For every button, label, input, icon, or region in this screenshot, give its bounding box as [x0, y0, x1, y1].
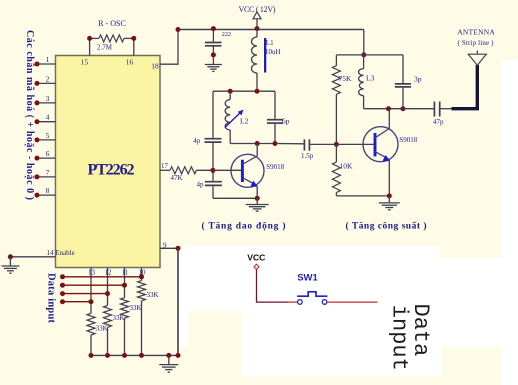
ground G2 (222 cap) — [205, 64, 222, 72]
wire: VCC to switch (dark red) — [257, 270, 289, 303]
label: Data input (big, rotated) — [387, 304, 434, 371]
wire: tank top — [213, 89, 275, 94]
svg-text:L3: L3 — [366, 74, 375, 83]
svg-text:7: 7 — [46, 168, 50, 177]
resistor R-OSC 2.7M — [90, 19, 134, 52]
capacitor 3p — [395, 55, 422, 109]
switch SW1 — [297, 273, 327, 305]
VCC pin marker — [254, 264, 259, 269]
svg-text:PT2262: PT2262 — [88, 162, 135, 179]
svg-text:L1: L1 — [266, 39, 274, 47]
pin 8 wire — [35, 186, 56, 198]
svg-text:17: 17 — [161, 162, 169, 170]
svg-text:( Tăng dao động ): ( Tăng dao động ) — [202, 220, 286, 231]
label: Tang cong suat — [346, 221, 427, 232]
svg-text:4p: 4p — [197, 181, 205, 189]
antenna symbol — [457, 28, 495, 66]
ground G4 (Q2 emitter) — [379, 196, 400, 210]
label: encode pins vertical text — [24, 30, 35, 200]
capacitor C 4p (lower) — [197, 181, 222, 199]
svg-text:33K: 33K — [147, 291, 159, 299]
svg-text:6: 6 — [46, 149, 50, 158]
label: Data input (small) — [46, 273, 57, 324]
ground G1 (enable) — [1, 257, 19, 273]
svg-text:R - OSC: R - OSC — [98, 19, 126, 28]
wire: stage2 tank bottom — [364, 106, 406, 111]
svg-text:18: 18 — [151, 62, 159, 71]
wire: Q2 collector — [388, 109, 390, 129]
resistor 33K (pin 11) — [121, 268, 142, 356]
wire: data line 1 — [60, 274, 142, 279]
pin 6 wire — [35, 149, 56, 161]
strip line (thick) — [452, 65, 478, 109]
pin 5 wire — [35, 131, 56, 143]
svg-text:1: 1 — [46, 55, 50, 64]
svg-text:15: 15 — [81, 58, 89, 67]
transistor Q2 S9018 (power) — [336, 127, 417, 162]
wire: tank bottom — [230, 141, 277, 146]
capacitor 1.5p coupling — [275, 139, 336, 160]
svg-text:ANTENNA: ANTENNA — [457, 28, 495, 37]
label: Tang dao dong — [202, 220, 286, 231]
svg-text:S9018: S9018 — [399, 136, 417, 144]
resistor 33K (pin 13) — [87, 268, 108, 356]
wire: data line 4 — [60, 299, 91, 304]
svg-text:5: 5 — [46, 131, 50, 140]
svg-text:3p: 3p — [414, 75, 422, 84]
svg-text:( Strip line ): ( Strip line ) — [458, 39, 495, 47]
inductor L2 (variable) — [225, 91, 249, 143]
svg-text:( Tăng công suất ): ( Tăng công suất ) — [346, 221, 427, 232]
wire: bottom rail — [89, 353, 181, 358]
resistor 33K (pin 10) — [138, 268, 159, 356]
svg-text:4: 4 — [46, 113, 50, 122]
wire: stub to switch contact (red) — [288, 301, 297, 303]
pin 18 wire — [151, 27, 180, 71]
inductor L1 10uH — [252, 29, 281, 92]
wire: switch output (red) — [327, 301, 378, 303]
pin 1 wire — [35, 55, 56, 67]
svg-text:6p: 6p — [282, 117, 290, 126]
capacitor 47p — [403, 102, 452, 127]
svg-text:1.5p: 1.5p — [301, 152, 314, 160]
VCC (12V) supply symbol — [239, 5, 276, 31]
svg-text:13: 13 — [88, 269, 96, 277]
VCC label (switch) — [247, 252, 265, 262]
wire: data line 3 — [60, 291, 108, 296]
wire: data line 2 — [60, 283, 125, 288]
svg-text:222: 222 — [222, 31, 231, 38]
capacitor C 4p (upper) — [193, 91, 221, 181]
wire: Q1 emitter to ground — [213, 187, 260, 201]
white overlay box — [180, 60, 518, 385]
wire: VCC rail — [178, 29, 364, 31]
svg-text:75K: 75K — [339, 74, 353, 83]
svg-text:10uH: 10uH — [265, 48, 281, 56]
pin 9 wire — [160, 242, 181, 251]
svg-text:47K: 47K — [171, 174, 183, 182]
svg-text:Các chân mã hoá ( + hoặc - ho: Các chân mã hoá ( + hoặc - hoặc 0 ) — [24, 30, 35, 200]
svg-text:47p: 47p — [433, 118, 444, 126]
wire: Q1 collector stub — [256, 144, 258, 157]
IC U1 PT2262 — [56, 56, 161, 268]
svg-text:SW1: SW1 — [297, 273, 318, 284]
ground G3 (Q1 emitter) — [246, 198, 269, 211]
svg-text:8: 8 — [46, 186, 50, 195]
svg-text:L2: L2 — [240, 117, 249, 126]
pin 4 wire — [35, 113, 56, 125]
resistor 33K (pin 12) — [104, 268, 125, 356]
wire: pin9 column down — [177, 248, 179, 355]
node pin15 — [81, 36, 92, 67]
resistor 47K (pin 17) — [160, 162, 216, 182]
svg-text:10K: 10K — [340, 162, 354, 171]
pin 3 wire — [35, 94, 56, 106]
svg-text:11: 11 — [122, 269, 129, 277]
pin 2 wire — [35, 74, 56, 86]
svg-text:12: 12 — [105, 269, 113, 277]
node pin16 — [126, 36, 137, 67]
svg-text:33K: 33K — [130, 304, 142, 312]
ground G5 (bottom rail) — [159, 355, 178, 372]
transistor Q1 S9018 (oscillator) — [213, 154, 285, 187]
pin 7 wire — [35, 168, 56, 180]
svg-text:33K: 33K — [96, 325, 108, 333]
svg-text:Data input: Data input — [46, 273, 57, 324]
capacitor 222 — [205, 26, 231, 63]
wire: rail drop to stage 2 — [361, 30, 366, 58]
svg-text:VCC: VCC — [247, 252, 265, 262]
svg-text:16: 16 — [126, 58, 134, 67]
svg-text:4p: 4p — [193, 137, 201, 145]
capacitor C 6p — [267, 91, 290, 143]
svg-text:3: 3 — [46, 94, 50, 103]
svg-text:14 Enable: 14 Enable — [47, 249, 75, 257]
pin 14 Enable wire — [8, 249, 75, 259]
wire: stage2 top — [336, 54, 403, 56]
svg-text:2.7M: 2.7M — [97, 44, 113, 52]
wire: Q2 emitter to ground — [336, 161, 391, 198]
svg-text:2: 2 — [46, 74, 50, 83]
inductor L3 — [359, 55, 375, 109]
resistor 75K — [332, 55, 352, 147]
svg-text:S9018: S9018 — [266, 163, 284, 171]
resistor 10K — [332, 144, 353, 196]
svg-text:input: input — [387, 305, 412, 371]
